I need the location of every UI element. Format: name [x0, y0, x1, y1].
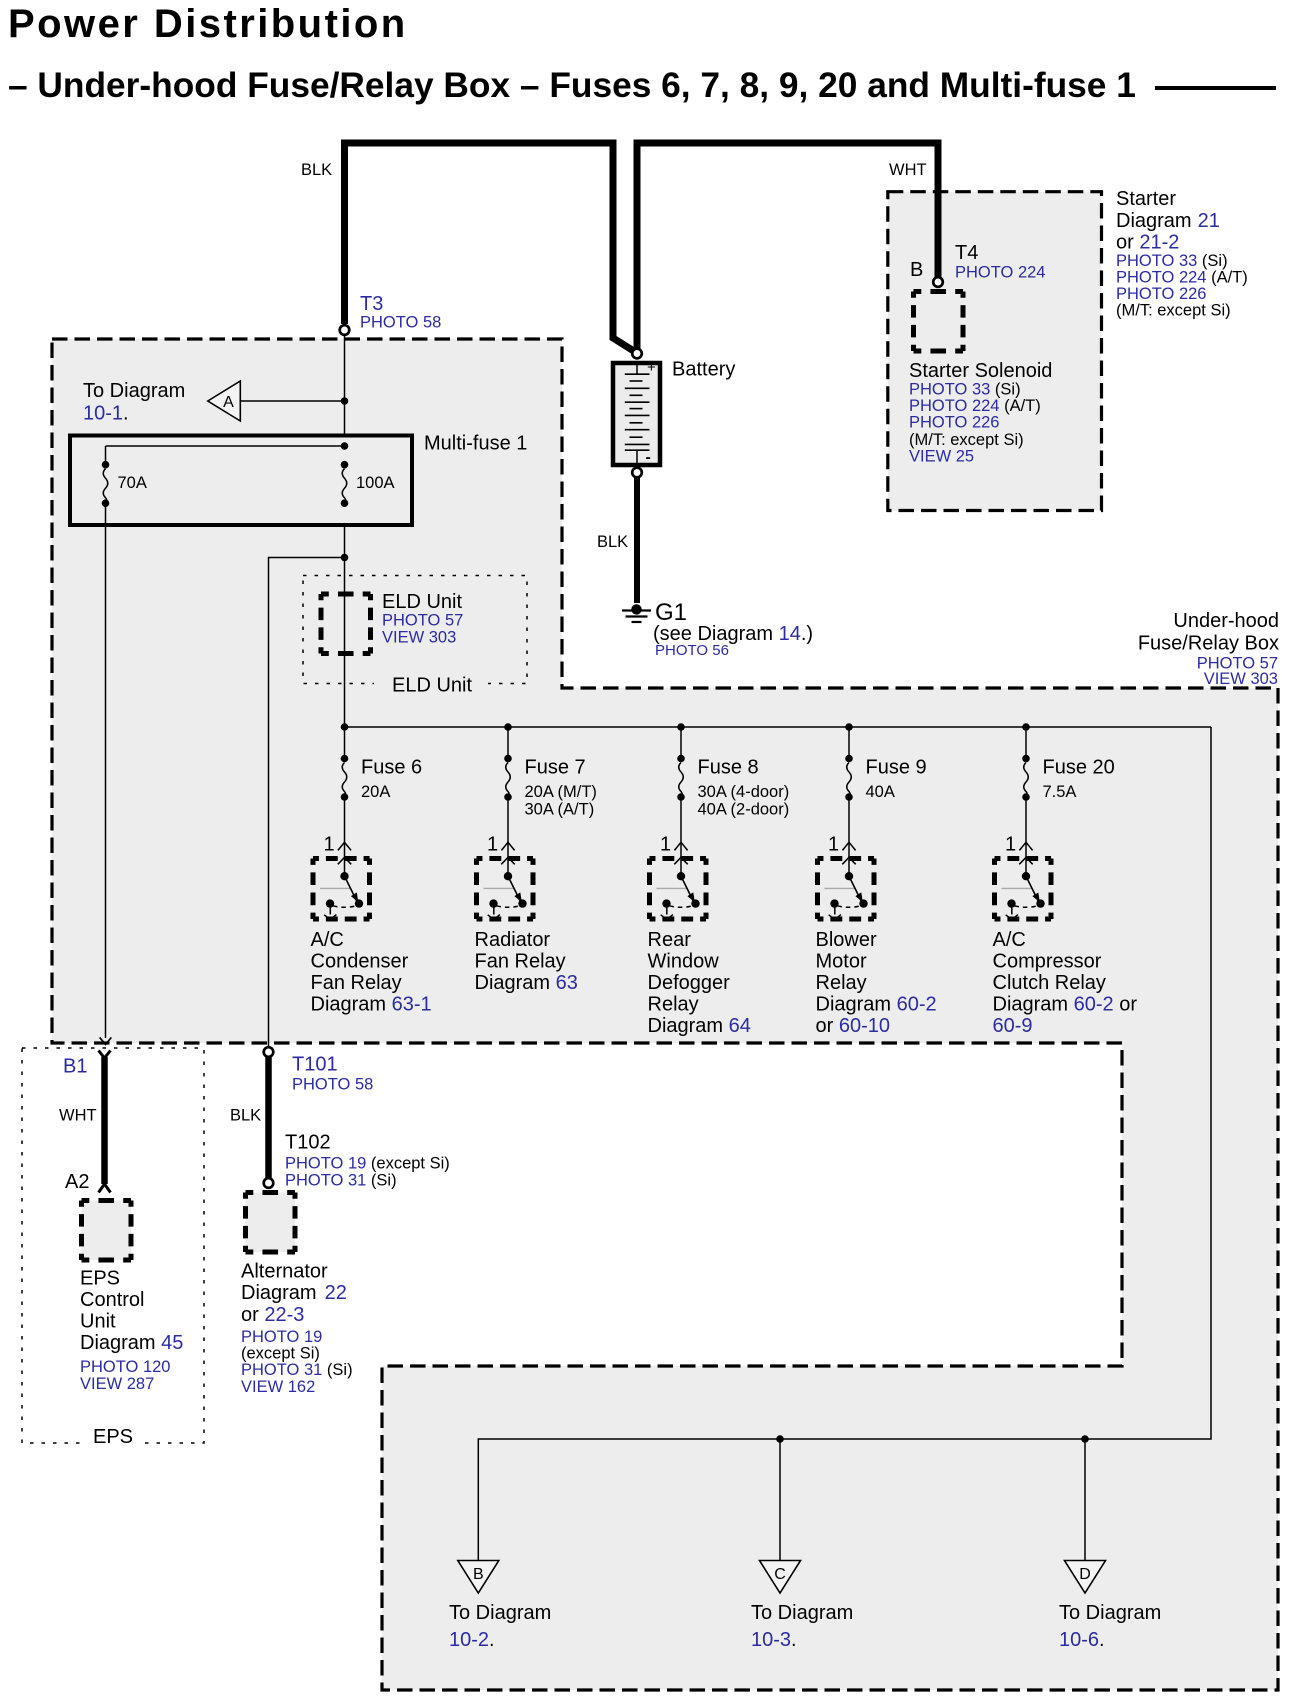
svg-text:– Under-hood Fuse/Relay Box –: – Under-hood Fuse/Relay Box – Fuses 6, 7… [8, 66, 1136, 105]
svg-text:Battery: Battery [672, 359, 735, 381]
svg-text:Starter: Starter [1116, 188, 1176, 210]
svg-text:Diagram22: Diagram22 [241, 1282, 347, 1304]
svg-text:Control: Control [80, 1289, 144, 1311]
svg-text:or 22-3: or 22-3 [241, 1304, 304, 1326]
svg-text:-: - [646, 449, 651, 466]
svg-text:100A: 100A [356, 474, 395, 492]
svg-text:PHOTO 31 (Si): PHOTO 31 (Si) [285, 1172, 397, 1190]
svg-text:30A (4-door): 30A (4-door) [698, 783, 790, 801]
svg-text:WHT: WHT [59, 1107, 97, 1125]
svg-text:PHOTO 224 (A/T): PHOTO 224 (A/T) [1116, 269, 1248, 287]
svg-text:PHOTO 57: PHOTO 57 [382, 612, 463, 630]
svg-text:+: + [647, 359, 656, 376]
svg-text:VIEW 25: VIEW 25 [909, 448, 974, 466]
svg-text:Fuse 8: Fuse 8 [698, 757, 759, 779]
svg-text:60-9: 60-9 [993, 1015, 1033, 1037]
svg-text:PHOTO 33 (Si): PHOTO 33 (Si) [1116, 252, 1228, 270]
svg-text:PHOTO 31 (Si): PHOTO 31 (Si) [241, 1361, 353, 1379]
svg-text:To Diagram: To Diagram [449, 1602, 551, 1624]
svg-text:Fuse 20: Fuse 20 [1043, 757, 1115, 779]
svg-text:EPS: EPS [93, 1426, 133, 1448]
svg-text:To Diagram: To Diagram [1059, 1602, 1161, 1624]
svg-text:1: 1 [487, 834, 498, 856]
svg-text:Motor: Motor [816, 951, 867, 973]
svg-text:Relay: Relay [816, 972, 867, 994]
svg-text:VIEW 162: VIEW 162 [241, 1378, 315, 1396]
svg-text:B1: B1 [63, 1056, 87, 1078]
svg-text:1: 1 [324, 834, 335, 856]
svg-text:20A (M/T): 20A (M/T) [525, 783, 597, 801]
svg-text:VIEW 303: VIEW 303 [382, 629, 456, 647]
svg-text:or 21-2: or 21-2 [1116, 232, 1179, 254]
svg-text:A/C: A/C [993, 929, 1026, 951]
svg-text:PHOTO 19: PHOTO 19 [241, 1328, 322, 1346]
svg-text:1: 1 [828, 834, 839, 856]
svg-text:ELD Unit: ELD Unit [382, 591, 462, 613]
svg-text:PHOTO 58: PHOTO 58 [360, 314, 441, 332]
svg-text:Diagram 60-2: Diagram 60-2 [816, 994, 937, 1016]
svg-text:Diagram 60-2 or: Diagram 60-2 or [993, 994, 1138, 1016]
svg-text:Diagram 45: Diagram 45 [80, 1332, 183, 1354]
svg-text:ELD Unit: ELD Unit [392, 675, 472, 697]
svg-text:BLK: BLK [230, 1107, 261, 1125]
svg-text:20A: 20A [361, 783, 390, 801]
svg-text:Fuse 9: Fuse 9 [866, 757, 927, 779]
svg-text:Diagram 64: Diagram 64 [648, 1015, 751, 1037]
svg-text:EPS: EPS [80, 1268, 120, 1290]
svg-text:A2: A2 [65, 1171, 89, 1193]
svg-text:10-1.: 10-1. [83, 403, 129, 425]
svg-text:(M/T: except Si): (M/T: except Si) [909, 431, 1024, 449]
svg-text:PHOTO 224: PHOTO 224 [955, 264, 1045, 282]
svg-text:To Diagram: To Diagram [751, 1602, 853, 1624]
svg-text:Rear: Rear [648, 929, 692, 951]
svg-text:B: B [473, 1566, 484, 1583]
svg-text:VIEW 287: VIEW 287 [80, 1375, 154, 1393]
svg-text:Condenser: Condenser [311, 951, 409, 973]
svg-text:A: A [223, 394, 234, 411]
svg-text:Multi-fuse 1: Multi-fuse 1 [424, 433, 527, 455]
svg-text:Alternator: Alternator [241, 1261, 328, 1283]
svg-text:B: B [910, 259, 923, 281]
svg-text:PHOTO 33 (Si): PHOTO 33 (Si) [909, 381, 1021, 399]
svg-text:PHOTO 58: PHOTO 58 [292, 1076, 373, 1094]
svg-text:PHOTO 56: PHOTO 56 [655, 642, 729, 659]
svg-text:10-6.: 10-6. [1059, 1629, 1105, 1651]
svg-text:PHOTO 226: PHOTO 226 [1116, 285, 1206, 303]
svg-text:PHOTO 224 (A/T): PHOTO 224 (A/T) [909, 397, 1041, 415]
svg-text:Radiator: Radiator [475, 929, 551, 951]
svg-text:D: D [1079, 1566, 1091, 1583]
svg-text:10-2.: 10-2. [449, 1629, 495, 1651]
svg-text:Blower: Blower [816, 929, 877, 951]
svg-text:Fuse 7: Fuse 7 [525, 757, 586, 779]
svg-text:Starter Solenoid: Starter Solenoid [909, 360, 1052, 382]
svg-text:Compressor: Compressor [993, 951, 1102, 973]
svg-text:Fan Relay: Fan Relay [311, 972, 402, 994]
svg-text:10-3.: 10-3. [751, 1629, 797, 1651]
svg-text:T102: T102 [285, 1132, 331, 1154]
svg-text:(M/T: except Si): (M/T: except Si) [1116, 302, 1231, 320]
svg-text:A/C: A/C [311, 929, 344, 951]
svg-text:or 60-10: or 60-10 [816, 1015, 891, 1037]
svg-text:T3: T3 [360, 293, 383, 315]
svg-text:BLK: BLK [301, 161, 332, 179]
svg-text:1: 1 [1005, 834, 1016, 856]
svg-text:BLK: BLK [597, 533, 628, 551]
svg-text:Fuse/Relay Box: Fuse/Relay Box [1138, 633, 1279, 655]
svg-text:PHOTO 226: PHOTO 226 [909, 414, 999, 432]
svg-text:WHT: WHT [889, 161, 927, 179]
svg-text:C: C [774, 1566, 786, 1583]
svg-text:Fan Relay: Fan Relay [475, 951, 566, 973]
svg-text:To Diagram: To Diagram [83, 380, 185, 402]
svg-text:Diagram 63-1: Diagram 63-1 [311, 994, 432, 1016]
svg-text:40A (2-door): 40A (2-door) [698, 801, 790, 819]
svg-text:VIEW 303: VIEW 303 [1204, 670, 1278, 688]
svg-text:Window: Window [648, 951, 720, 973]
svg-text:7.5A: 7.5A [1043, 783, 1077, 801]
svg-text:PHOTO 120: PHOTO 120 [80, 1358, 170, 1376]
svg-text:70A: 70A [118, 474, 147, 492]
svg-text:Power Distribution: Power Distribution [8, 2, 408, 46]
svg-text:1: 1 [660, 834, 671, 856]
svg-text:Unit: Unit [80, 1311, 116, 1333]
svg-text:Fuse 6: Fuse 6 [361, 757, 422, 779]
svg-text:40A: 40A [866, 783, 895, 801]
svg-text:T4: T4 [955, 242, 978, 264]
svg-text:T101: T101 [292, 1054, 338, 1076]
svg-text:Diagram21: Diagram21 [1116, 210, 1220, 232]
svg-text:(except Si): (except Si) [241, 1345, 320, 1363]
svg-text:PHOTO 19 (except Si): PHOTO 19 (except Si) [285, 1155, 450, 1173]
svg-text:Defogger: Defogger [648, 972, 731, 994]
svg-text:Relay: Relay [648, 994, 699, 1016]
svg-text:G1: G1 [655, 599, 687, 626]
svg-text:Under-hood: Under-hood [1173, 610, 1279, 632]
svg-text:Diagram 63: Diagram 63 [475, 972, 578, 994]
svg-text:Clutch Relay: Clutch Relay [993, 972, 1106, 994]
svg-text:30A (A/T): 30A (A/T) [525, 801, 595, 819]
